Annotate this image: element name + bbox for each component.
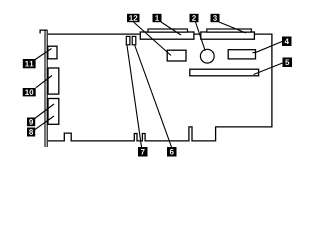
callout label 2 xyxy=(190,14,199,22)
leader line callout 12 to chip xyxy=(134,22,172,56)
callout label 8 xyxy=(27,128,35,137)
leader line callout 4 to component rectangle xyxy=(253,42,283,53)
jumper block B (callout 6) xyxy=(132,36,136,44)
top connector 2 body (callout 3) xyxy=(201,32,255,39)
leader line callout 2 to round component xyxy=(196,22,206,51)
jumper block A (callout 7) xyxy=(126,36,130,44)
leader line callout 9 to bracket connector 3 upper xyxy=(35,104,54,119)
bracket left rail xyxy=(44,30,46,147)
bracket connector 2 (callout 10) xyxy=(48,68,59,94)
callout label 5 xyxy=(283,58,293,68)
chip (callout 12) xyxy=(167,50,186,61)
callout label 1 xyxy=(153,14,162,22)
leader line callout 8 to bracket connector 3 lower xyxy=(35,116,54,130)
top connector 1 body (callout 1) xyxy=(140,32,194,39)
long connector (callout 5) xyxy=(190,69,259,76)
card outline with edge-connector notches xyxy=(48,34,272,141)
callout label 3 xyxy=(211,14,220,22)
leader line callout 7 to jumper block A xyxy=(127,46,142,148)
bracket connector 3 (callouts 9 and 8) xyxy=(48,99,59,125)
round component (callout 2) xyxy=(200,49,214,63)
leader line callout 6 to jumper block B xyxy=(135,46,172,148)
leader line callout 5 to long connector xyxy=(254,63,283,75)
leader line callout 3 to top connector 2 xyxy=(219,22,246,33)
callout label 6 xyxy=(167,147,177,157)
leader line callout 10 to bracket connector 2 xyxy=(36,76,52,88)
callout label 4 xyxy=(282,37,292,47)
callout label 12 xyxy=(127,14,140,22)
callout label 7 xyxy=(138,147,148,157)
callout label 10 xyxy=(23,88,36,96)
leader line callout 11 to bracket connector 1 xyxy=(35,49,51,60)
bracket right rail xyxy=(46,30,48,147)
top connector 2 plate xyxy=(207,29,252,32)
bracket connector 1 (callout 11) xyxy=(48,46,57,59)
bracket top flange xyxy=(40,30,47,33)
top connector 1 plate xyxy=(148,29,188,32)
component rectangle (callout 4) xyxy=(228,50,255,59)
leader line callout 1 to top connector 1 xyxy=(161,22,181,35)
callout label 11 xyxy=(23,59,36,68)
callout label 9 xyxy=(27,118,35,127)
